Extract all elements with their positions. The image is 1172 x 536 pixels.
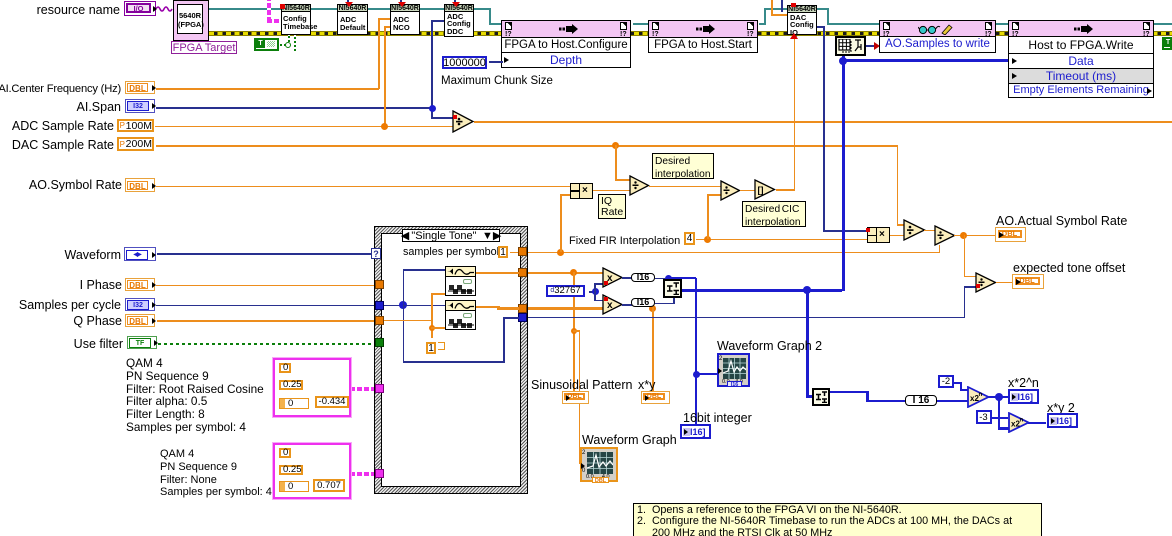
wire AI.Center into ADC NCO	[378, 18, 390, 20]
wire teal riser at 765	[764, 8, 766, 25]
function round to nearest	[754, 179, 776, 200]
wire I-T out thick	[830, 391, 868, 394]
node x2n junction	[995, 393, 1003, 401]
wire I Phase orange	[156, 285, 375, 287]
marker red input arrow AO.Samples	[874, 42, 880, 50]
control DBL Q Phase	[125, 314, 155, 327]
wire samples up into divideB bottom	[939, 245, 941, 253]
wire dotted green second riser	[294, 35, 296, 51]
wire sine2 branch down to x*y	[652, 307, 654, 391]
tunnel Samples per cycle	[375, 301, 384, 310]
node junction waveform graph 2	[693, 371, 700, 378]
wire Use filter green dotted	[158, 343, 375, 345]
label Desired interpolation	[652, 153, 714, 179]
wire AI.Span navy	[156, 107, 432, 109]
function I-T decimate icon	[812, 388, 830, 406]
label 16bit integer	[683, 412, 752, 425]
wire junction down into interleave	[668, 278, 670, 283]
wire into waveform graph terminal	[579, 463, 583, 465]
wire d32767 up branch	[594, 283, 596, 292]
wire junction down	[998, 396, 1001, 429]
label DAC Sample Rate	[0, 139, 114, 152]
wire teal AO to Write	[995, 23, 1009, 25]
indicator DBL expected tone offset	[1012, 274, 1044, 289]
tunnel cluster 1	[375, 384, 384, 393]
node thick blue junction at grid icon	[839, 57, 847, 65]
structure case border	[375, 227, 527, 493]
wire x2n2 out	[1028, 422, 1046, 425]
constant cluster 1	[273, 358, 351, 417]
wire thick vertical x696	[695, 278, 697, 425]
wire ADC rate riser to NCO	[384, 26, 386, 126]
node Q junction	[429, 325, 435, 331]
marker red coercion DAC bottom	[790, 33, 798, 39]
wire purple squiggle I/O to FPGA open	[156, 4, 174, 14]
constant -3	[976, 410, 992, 424]
label QAM text block 1	[126, 357, 264, 434]
wire junction down to ETO divide	[964, 235, 966, 277]
constant -2	[938, 375, 954, 388]
wire DAC rate branch into divide1	[615, 179, 630, 181]
wire multiply1 out	[622, 277, 632, 279]
label resource name	[0, 4, 120, 17]
label FPGA Target	[171, 41, 237, 54]
label Waveform Graph	[582, 434, 677, 447]
wire navy to out tunnel	[503, 317, 519, 319]
wire navy up to sine1	[403, 269, 405, 305]
wire magenta into Config Timebase	[267, 19, 281, 23]
node property AO.Samples to write	[879, 20, 996, 37]
wire into sine1 phase input	[431, 293, 445, 295]
wire navy from tunnel to junction	[384, 305, 403, 307]
node NI5640R ADC Config DDC	[444, 4, 474, 37]
marker red coercion multiply2	[604, 297, 608, 301]
wire samples branch up to IQ multiply	[560, 194, 562, 252]
wire AI.Span into DDC	[431, 20, 444, 22]
marker red coercion AI divide	[453, 115, 457, 119]
indicator Waveform Graph icon	[580, 447, 618, 482]
wire sine2 out thick	[527, 307, 604, 310]
node invoke Host to FPGA.Write	[1008, 20, 1154, 37]
wire CIC interpolation up to DAC	[794, 36, 796, 190]
label x*y 2	[1047, 402, 1075, 415]
node NI5640R Config Timebase	[281, 4, 311, 35]
tunnel sine1 out	[518, 268, 527, 277]
wire I16-2 riser into interleave	[673, 297, 675, 304]
control Waveform enum	[124, 247, 156, 261]
indicator Waveform Graph 2 icon	[717, 353, 750, 387]
marker red coercion ETO divide	[976, 284, 980, 288]
node symbol rate junction	[960, 232, 967, 239]
wire FIR branch into divide2	[707, 194, 721, 196]
wire x2n out	[988, 396, 1008, 399]
marker red coercion compound	[866, 228, 870, 232]
wire samples per symbol out of case	[527, 252, 940, 254]
node Sine Pattern VI 2	[445, 300, 476, 330]
wire orange into DAC left horiz	[771, 14, 787, 16]
label Sinusoidal Pattern	[531, 379, 632, 392]
wire dotted green up to Config Timebase	[288, 35, 290, 42]
function multiply 2	[602, 294, 624, 315]
wire navy up into ETO divide	[964, 286, 966, 318]
control DBL I Phase	[125, 278, 155, 291]
function divide AI (Span/SampleRate)	[452, 110, 475, 133]
node sine1 jog junction	[571, 328, 577, 334]
coercion I16 bubble 1	[631, 273, 655, 282]
wire thick blue data rail horizontal	[842, 59, 1009, 62]
label Samples per cycle	[0, 299, 121, 312]
indicator DBL AO.Actual Symbol Rate	[995, 227, 1026, 242]
wire navy down inside case	[403, 305, 405, 362]
wire navy stub top 455	[454, 0, 456, 4]
function scale by 2^n second	[1008, 412, 1030, 433]
wire sine2 to tunnel thick	[476, 306, 498, 309]
connector bracket	[438, 342, 445, 350]
wire -2 to x2n	[954, 382, 961, 384]
node DAC rate junction	[612, 142, 619, 149]
tunnel Use filter	[375, 338, 384, 347]
wire AI.Span down to divide	[431, 107, 433, 118]
wire navy into sine2	[403, 305, 445, 307]
function compound multiply (symbol rate)	[867, 227, 890, 243]
function divide A	[903, 219, 926, 241]
node navy junction in case	[399, 301, 407, 309]
wire Q Phase orange	[157, 320, 375, 322]
wire navy from top into DAC header	[781, 0, 783, 12]
wire sine1 out thick	[527, 272, 604, 275]
node interleave junction	[803, 286, 811, 294]
node FIR junction	[704, 236, 711, 243]
wire orange from top into DAC left	[771, 0, 773, 15]
wire teal DAC right	[816, 8, 829, 10]
tunnel I Phase	[375, 280, 384, 289]
wire case navy long to expected-tone divide	[527, 317, 965, 319]
wire navy up right side	[503, 317, 505, 362]
case selector label	[402, 229, 500, 242]
wire AI.Span riser to ADC Config DDC	[431, 20, 433, 108]
wire teal riser at 490	[489, 8, 491, 24]
node I16 junction	[665, 275, 672, 282]
wire jog to graph feed	[573, 330, 580, 332]
coercion I16 bubble 3	[905, 395, 937, 406]
wire T dotted green	[280, 44, 286, 46]
wire sine1 to tunnel thick	[476, 272, 519, 275]
wire into sine2 phase input	[431, 327, 445, 329]
wire cluster2 pink dashed	[350, 472, 375, 476]
label I Phase	[42, 279, 122, 292]
wire divideA out	[924, 230, 935, 232]
wire FPGA ref teal top rail	[209, 8, 490, 10]
marker red arrow ADC Config DDC	[452, 2, 460, 7]
constant 1 phase	[426, 342, 436, 354]
node Array Size grid icon	[835, 36, 866, 56]
node samples per symbol junction	[557, 249, 564, 256]
wire teal Start to riser	[759, 23, 766, 25]
wire Fixed FIR 4 out	[696, 239, 868, 241]
indicator DBL Sinusoidal Pattern	[562, 391, 589, 404]
control DBL AO.Symbol Rate	[125, 178, 155, 192]
constant TF at right edge	[1162, 37, 1172, 50]
marker red arrow ADC NCO	[398, 2, 406, 7]
node Sine Pattern VI 1	[445, 266, 476, 296]
wire Q riser vertical	[431, 293, 433, 338]
node NI5640R ADC Default	[337, 4, 368, 35]
wire DAC rate branch down	[615, 145, 617, 180]
wire graph feed vertical	[579, 330, 581, 464]
label Waveform	[41, 249, 121, 262]
wire thick blue down 807	[806, 290, 809, 397]
node green circle junction	[285, 42, 291, 48]
label Waveform Graph 2	[717, 340, 822, 353]
constant T boolean	[254, 38, 279, 51]
wire teal riser to DAC	[764, 8, 788, 10]
wire teal riser at 828	[827, 8, 829, 25]
function divide 1	[629, 175, 650, 196]
wire navy stub top 348	[347, 0, 349, 4]
svg-text:n: n	[979, 392, 983, 398]
wire DAC Sample Rate orange	[156, 145, 898, 147]
constant d32767	[546, 285, 585, 297]
marker red dot DAC header	[791, 3, 796, 7]
node ADC rate junction	[381, 123, 388, 130]
constant 1000000	[442, 56, 487, 69]
tunnel samples per cycle out	[518, 313, 527, 322]
wire FIR branch up	[707, 194, 709, 239]
indicator I16 x*2^n	[1008, 389, 1039, 404]
function scale by 2^n first	[967, 386, 990, 408]
label Fixed FIR Interpolation	[569, 235, 680, 248]
wire IQ rate out	[593, 190, 630, 192]
node sine1 junction	[570, 269, 577, 276]
label Q Phase	[42, 315, 122, 328]
node NI5640R DAC Config IQ	[787, 5, 817, 35]
wire -3 to x2n2	[991, 417, 1008, 419]
wire multiply2 out	[622, 304, 632, 306]
function multiply 1	[602, 267, 624, 288]
wire d32767 out	[589, 291, 595, 293]
wire teal Configure to Start	[633, 23, 649, 25]
label x*2^n	[1008, 377, 1039, 390]
wire DAC navy into compound multiply	[823, 230, 867, 232]
node sine2 junction	[649, 305, 656, 312]
tunnel Q Phase	[375, 316, 384, 325]
control TF Use filter	[127, 336, 157, 349]
label Maximum Chunk Size	[441, 75, 553, 88]
wire AI.Center Frequency orange	[156, 88, 379, 90]
wire ADC rate into NCO	[384, 26, 390, 28]
control DBL AI.Center Frequency	[125, 81, 155, 94]
indicator DBL x*y	[641, 391, 670, 404]
wire sine1 branch down to Sinusoidal Pattern	[573, 272, 575, 391]
label Use filter	[43, 338, 123, 351]
wire teal into AO.Samples	[827, 23, 880, 25]
wire magenta cluster from top	[267, 0, 271, 22]
wire compound out	[890, 235, 904, 237]
node FPGA to Host.Start	[648, 20, 758, 38]
label x*y	[638, 379, 655, 392]
tunnel samples per symbol	[518, 247, 527, 256]
constant 1 samples per symbol	[498, 246, 508, 258]
wire I16-3 out thick	[937, 400, 968, 403]
label IQ Rate	[598, 194, 626, 219]
label AO.Symbol Rate	[0, 179, 122, 192]
node AI.Span junction	[429, 105, 436, 112]
wire divide1 out	[649, 186, 721, 188]
control I32 Samples per cycle	[125, 298, 155, 311]
constant cluster 2	[273, 443, 351, 499]
wire navy across bottom	[403, 361, 505, 363]
control I/O resource name	[124, 1, 156, 16]
label AI.Center Frequency (Hz)	[0, 83, 121, 96]
tunnel cluster 2	[375, 469, 384, 478]
indicator I16 array 16bit integer	[680, 424, 711, 439]
wire I16-1 out	[655, 278, 696, 280]
wire DAC rate into divideA	[897, 224, 905, 226]
wire navy into ETO divide bottom	[964, 286, 977, 288]
constant 4	[684, 232, 695, 245]
wire interleave out thick	[682, 289, 842, 292]
indicator I16 x*y 2	[1047, 413, 1078, 428]
node FPGA to Host.Configure	[501, 20, 631, 38]
function interleave arrays	[663, 279, 682, 298]
wire grid icon to AO.Samples	[866, 45, 876, 47]
label expected tone offset	[1013, 262, 1125, 275]
wire teal into Configure	[489, 23, 502, 25]
constant 200M	[117, 137, 154, 151]
wire CIC out into riser	[776, 189, 795, 191]
wire error cluster (yellow/black dashed)	[209, 31, 1172, 36]
marker red coercion multiply1	[604, 281, 608, 285]
function divide expected tone offset	[975, 272, 997, 293]
wire to waveform graph 2	[696, 373, 717, 375]
svg-text:x: x	[607, 300, 613, 311]
wire DAC Config IQ navy down	[823, 26, 825, 231]
wire cluster1 pink dashed	[350, 387, 375, 391]
marker red arrow ADC Default	[345, 2, 353, 7]
constant 100M	[117, 119, 154, 132]
wire AI.Span into divide	[431, 117, 453, 119]
wire ADC Sample Rate orange	[155, 126, 453, 128]
comment box numbered instructions	[633, 503, 1042, 536]
function divide B	[934, 225, 956, 246]
label ADC Sample Rate	[0, 120, 114, 133]
wire teal Write to edge	[1153, 23, 1172, 25]
wire samples branch into IQ multiply	[560, 194, 570, 196]
wire DAC navy from block	[816, 26, 824, 28]
wire DAC rate drop at 897	[897, 145, 899, 225]
svg-text:n: n	[1020, 418, 1024, 424]
wire divide2 out	[740, 190, 755, 192]
wire Samples per cycle navy	[156, 305, 375, 307]
wire Waveform navy	[157, 253, 371, 255]
wire navy stub top 401	[400, 0, 402, 4]
label AO.Actual Symbol Rate	[996, 215, 1127, 228]
label AI.Span	[42, 101, 121, 114]
wire navy into sine1	[403, 269, 446, 271]
wire thick blue into I-T icon	[806, 395, 814, 398]
wire divideB out	[954, 235, 995, 237]
wire AI divide output long	[474, 121, 1172, 123]
terminal case selector ?	[371, 248, 381, 259]
wire I16-2 out	[655, 303, 674, 305]
wire AO.Symbol Rate orange	[156, 186, 570, 188]
wire 1000000 to Depth	[489, 61, 503, 63]
control I32 AI.Span	[125, 99, 155, 113]
wire AI.Center riser	[378, 18, 380, 89]
node NI5640R ADC NCO	[390, 4, 420, 35]
marker red arrow Config Timebase	[280, 4, 285, 9]
svg-text:[]: []	[758, 185, 764, 195]
label QAM text block 2	[160, 448, 272, 499]
node Open FPGA VI Reference 5640R	[173, 0, 209, 41]
function IQ rate compound multiply	[570, 183, 593, 199]
coercion I16 bubble 2	[631, 298, 655, 307]
tunnel sine2 out	[518, 304, 527, 313]
function divide 2	[720, 180, 741, 201]
wire thick blue vertical 843	[842, 56, 845, 291]
wire ETO divide out	[996, 282, 1012, 284]
wire d32767 down branch	[594, 291, 596, 301]
label samples per symbol	[403, 246, 499, 259]
wire 1 to tunnel	[510, 252, 520, 254]
node d32767 junction	[592, 288, 599, 295]
label Desired CIC interpolation	[742, 201, 806, 227]
wire Q phase to riser	[384, 320, 432, 322]
